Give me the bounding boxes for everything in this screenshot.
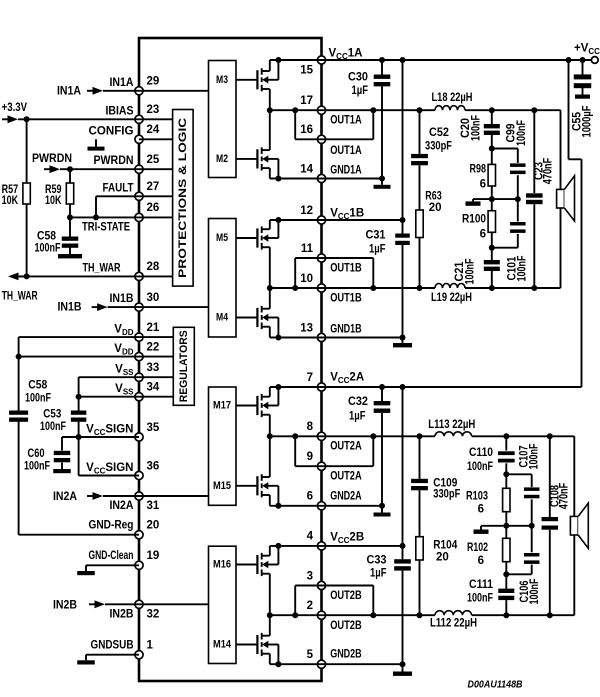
svg-text:PROTECTIONS & LOGIC: PROTECTIONS & LOGIC — [177, 118, 189, 278]
pin label GND2B — [330, 648, 362, 660]
svg-text:OUT2A: OUT2A — [330, 441, 362, 453]
svg-text:IN2B: IN2B — [53, 600, 77, 612]
wire pin 23 to PROTECTIONS block — [139, 118, 173, 120]
resistor R104 20 — [416, 537, 458, 616]
resistor R98 6 — [470, 149, 496, 200]
pin label OUT1B (10) — [330, 292, 362, 304]
svg-text:GND2A: GND2A — [330, 490, 362, 502]
capacitor C60 100nF — [24, 437, 70, 473]
capacitor C106 100nF — [506, 526, 541, 605]
transistor M15-LS — [236, 436, 281, 509]
wire pin 26 to PROTECTIONS block — [139, 216, 173, 218]
node half-bridge output junction (M3) — [267, 107, 273, 113]
svg-text:M4: M4 — [216, 312, 229, 324]
wire OUT pin line (M5 bridge) — [270, 287, 322, 289]
pin 29 IN1A — [110, 76, 160, 95]
wire pin 22 to REGULATORS block — [139, 356, 173, 358]
wire C58 to GND-Reg pin 20 — [19, 421, 139, 535]
ground (C58) — [58, 254, 82, 258]
pin 7 — [307, 372, 326, 391]
svg-text:6: 6 — [478, 555, 484, 567]
pin 2 — [307, 600, 326, 619]
svg-text:100nF: 100nF — [516, 120, 528, 146]
label D00AU1148B — [468, 679, 523, 691]
pin label VCCSIGN (35) — [86, 424, 133, 437]
pin 27 FAULT — [103, 181, 160, 200]
svg-text:330pF: 330pF — [425, 141, 452, 153]
wire VDD rail (pins 21/22) to C58 column — [16, 337, 139, 410]
wire pin 21 to REGULATORS block — [139, 336, 173, 338]
svg-text:100nF: 100nF — [40, 421, 66, 433]
wire +3.3V to pin 23 IBIAS — [18, 116, 139, 122]
wire VCCSIGN net (pins 35/36) — [62, 434, 139, 476]
transistor M3-HS — [236, 57, 281, 110]
svg-text:PWRDN: PWRDN — [32, 153, 72, 165]
pin 9 — [307, 451, 326, 470]
pin 12 — [300, 205, 325, 224]
svg-text:IN2B: IN2B — [110, 609, 134, 621]
wire pin 25 to PROTECTIONS block — [139, 168, 173, 170]
node PWRDN input — [32, 153, 72, 173]
svg-text:470nF: 470nF — [543, 158, 555, 185]
wire TH_WAR output line — [2, 273, 139, 303]
svg-text:L18 22µH: L18 22µH — [432, 92, 473, 104]
driver block M3/M2 — [209, 61, 237, 178]
wire OUT pin line (M3 bridge) — [270, 109, 322, 111]
svg-text:L19 22µH: L19 22µH — [431, 292, 472, 304]
svg-text:27: 27 — [147, 181, 160, 193]
pin 31 IN2A — [110, 492, 160, 512]
svg-text:10: 10 — [300, 273, 313, 285]
pin label VCC1A — [329, 48, 363, 61]
svg-text:GND-Clean: GND-Clean — [89, 550, 134, 562]
wire GND2B to ground — [322, 661, 406, 671]
pin label OUT2A (9) — [330, 471, 362, 483]
pin label OUT1B (11) — [330, 262, 362, 274]
pin 22 — [135, 341, 159, 360]
svg-text:13: 13 — [300, 322, 313, 334]
svg-text:100nF: 100nF — [25, 393, 51, 405]
inductor L112 22µH — [430, 611, 477, 630]
wire external bracket pin 11 — [322, 258, 374, 288]
inductor L18 22µH — [432, 92, 473, 110]
wire VSS bracket (pins 33/34) — [76, 377, 139, 400]
capacitor C108 470nF — [542, 436, 571, 615]
svg-text:20: 20 — [147, 520, 160, 532]
wire internal bracket to pin 16 — [292, 107, 321, 139]
svg-text:10K: 10K — [2, 195, 19, 207]
pin label GND1A — [330, 164, 362, 176]
wire +VCC bus to VCC2A rail — [322, 60, 582, 390]
pin 10 — [300, 273, 325, 292]
transistor M2-LS — [236, 110, 281, 181]
capacitor C21 100nF — [454, 248, 500, 288]
svg-text:OUT2B: OUT2B — [330, 620, 362, 632]
pin label VDD (22) — [114, 343, 133, 356]
svg-text:36: 36 — [147, 460, 160, 472]
svg-text:TRI-STATE: TRI-STATE — [82, 221, 130, 233]
svg-text:IN2A: IN2A — [53, 491, 77, 503]
wire IN2A pin31 to M17/M15 — [139, 495, 209, 497]
svg-text:28: 28 — [147, 261, 160, 273]
svg-text:330pF: 330pF — [433, 488, 460, 500]
pin label OUT1A (16) — [330, 145, 362, 157]
wire GND1B to ground — [322, 335, 406, 344]
svg-text:15: 15 — [300, 64, 313, 76]
pin 20 GND-Reg — [89, 519, 160, 538]
capacitor C111 100nF — [467, 574, 514, 615]
capacitor C52 330pF — [411, 110, 452, 210]
wire external bracket pin 16 — [322, 110, 374, 139]
ground (GND2B) — [393, 672, 412, 676]
svg-text:33: 33 — [147, 362, 160, 374]
svg-text:GND2B: GND2B — [330, 648, 362, 660]
pin 17 — [300, 95, 325, 114]
wire mid node (zobel ch2) — [481, 523, 535, 529]
wire TRI-STATE net (pin 26) — [67, 214, 139, 220]
svg-text:470nF: 470nF — [559, 483, 571, 510]
svg-text:20: 20 — [436, 551, 449, 563]
svg-text:32: 32 — [147, 609, 160, 621]
svg-text:R63: R63 — [425, 191, 442, 203]
svg-text:21: 21 — [147, 322, 160, 334]
wire speaker 2 bottom lead — [550, 535, 575, 615]
svg-text:R104: R104 — [433, 539, 458, 551]
ground (zobel mid ch2) — [474, 526, 489, 534]
resistor R102 6 — [467, 526, 510, 575]
svg-text:7: 7 — [307, 372, 313, 384]
svg-text:C32: C32 — [348, 396, 368, 408]
svg-text:C111: C111 — [469, 579, 494, 591]
pin label VCC2A — [330, 372, 364, 385]
wire VCC1B feed (pin 12) — [322, 60, 406, 223]
pin 8 — [307, 421, 326, 440]
wire OUT pin line (M17 bridge) — [270, 435, 322, 437]
svg-text:C58: C58 — [28, 380, 48, 392]
wire OUT1B line (pin 10) — [322, 285, 538, 291]
svg-text:19: 19 — [147, 550, 160, 562]
svg-text:M2: M2 — [216, 153, 228, 165]
node IN2A input — [53, 491, 139, 503]
pin label VCC1B — [330, 208, 364, 221]
svg-text:M16: M16 — [213, 559, 231, 571]
svg-text:REGULATORS: REGULATORS — [178, 330, 190, 402]
svg-text:11: 11 — [301, 243, 314, 255]
pin 13 — [300, 322, 325, 341]
capacitor C33 1µF — [367, 546, 411, 664]
svg-text:TH_WAR: TH_WAR — [83, 262, 122, 274]
block REGULATORS — [173, 327, 194, 405]
svg-text:+3.3V: +3.3V — [2, 102, 28, 114]
pin 1 GNDSUB — [91, 639, 154, 658]
svg-text:GND-Reg: GND-Reg — [89, 519, 134, 531]
pin 25 PWRDN — [94, 154, 160, 173]
svg-text:34: 34 — [147, 382, 160, 394]
svg-text:M15: M15 — [213, 480, 231, 492]
svg-text:29: 29 — [147, 76, 160, 88]
svg-text:OUT1B: OUT1B — [330, 292, 362, 304]
node IN2B input — [53, 600, 139, 612]
svg-text:31: 31 — [147, 500, 160, 512]
wire pin 34 to REGULATORS block — [139, 396, 173, 398]
wire VCC pin line (M3 bridge) — [270, 59, 322, 61]
ground (CONFIG pin 24) — [88, 139, 105, 150]
svg-text:IBIAS: IBIAS — [106, 105, 134, 117]
speaker (channel 1) — [557, 176, 575, 221]
svg-text:17: 17 — [300, 95, 313, 107]
svg-text:GNDSUB: GNDSUB — [91, 639, 134, 651]
svg-text:PWRDN: PWRDN — [94, 155, 134, 167]
svg-text:OUT2B: OUT2B — [330, 590, 362, 602]
ground (GND2A) — [374, 513, 391, 517]
svg-text:2: 2 — [307, 600, 313, 612]
wire GND pin line (M17 bridge) — [270, 505, 322, 507]
svg-text:25: 25 — [147, 154, 160, 166]
svg-text:OUT1B: OUT1B — [330, 262, 362, 274]
resistor R103 6 — [466, 474, 510, 526]
svg-text:1µF: 1µF — [352, 85, 369, 97]
ground (GND1B) — [393, 343, 412, 347]
svg-text:OUT2A: OUT2A — [330, 471, 362, 483]
pin 4 — [307, 531, 326, 550]
svg-text:L113 22µH: L113 22µH — [428, 419, 475, 431]
wire OUT2A line (pin 8) — [322, 433, 553, 439]
wire GND pin line (M16 bridge) — [270, 663, 322, 665]
speaker (channel 2) — [570, 503, 588, 548]
pin 11 — [301, 243, 326, 262]
svg-text:IN1B: IN1B — [58, 302, 82, 314]
node R102/C111/C106 junction — [503, 571, 509, 577]
wire IN1B pin30 to M5/M4 — [139, 306, 209, 308]
capacitor C20 100nF — [460, 110, 500, 148]
svg-text:TH_WAR: TH_WAR — [2, 291, 39, 303]
svg-text:C31: C31 — [366, 230, 387, 242]
pin 36 — [135, 460, 159, 479]
svg-text:9: 9 — [307, 451, 313, 463]
pin 21 — [135, 322, 160, 341]
pin 14 — [300, 163, 325, 182]
pin label GND1B — [330, 323, 362, 335]
pin label OUT2B (2) — [330, 620, 362, 632]
svg-text:30: 30 — [147, 292, 160, 304]
pin label OUT2A (8) — [330, 441, 362, 453]
svg-text:R100: R100 — [462, 214, 486, 226]
wire VCC pin line (M5 bridge) — [270, 219, 322, 221]
svg-text:100nF: 100nF — [529, 579, 541, 605]
svg-text:6: 6 — [478, 504, 484, 516]
node +VCC supply rail — [322, 43, 600, 64]
wire IN2B pin32 to M16/M14 — [139, 603, 209, 605]
capacitor C32 1µF — [348, 387, 390, 506]
svg-text:IN1A: IN1A — [57, 86, 81, 98]
svg-text:22: 22 — [147, 341, 160, 353]
svg-text:FAULT: FAULT — [103, 182, 134, 194]
IC U1 body outline — [139, 38, 322, 681]
capacitor C109 330pF — [411, 436, 460, 536]
pin 32 IN2B — [110, 600, 160, 620]
pin label VSS (33) — [115, 364, 134, 377]
svg-text:1000µF: 1000µF — [582, 106, 594, 138]
node half-bridge output junction (M5) — [267, 285, 273, 291]
node IN1B input — [58, 302, 140, 314]
svg-text:26: 26 — [147, 202, 160, 214]
svg-text:GND1A: GND1A — [330, 164, 362, 176]
svg-text:20: 20 — [429, 202, 442, 214]
capacitor C58 100nF (VDD) — [9, 380, 51, 422]
svg-text:M17: M17 — [213, 400, 231, 412]
block PROTECTIONS & LOGIC — [173, 110, 194, 287]
capacitor C107 100nF — [506, 444, 540, 526]
capacitor C23 470nF — [526, 110, 554, 288]
pin 35 — [135, 422, 160, 441]
wire speaker 1 bottom lead — [534, 208, 560, 288]
ground (C60) — [53, 469, 71, 473]
svg-text:IN2A: IN2A — [110, 500, 134, 512]
transistor M16-HS — [236, 543, 281, 615]
svg-text:C53: C53 — [43, 409, 61, 421]
wire VCC pin line (M16 bridge) — [270, 545, 322, 547]
pin 28 TH_WAR — [83, 261, 160, 280]
pin label OUT2B (3) — [330, 590, 362, 602]
capacitor C53 100nF — [40, 397, 86, 437]
svg-text:M5: M5 — [216, 232, 228, 244]
node half-bridge output junction (M16) — [267, 612, 273, 618]
svg-text:100nF: 100nF — [471, 115, 483, 141]
wire GND pin line (M3 bridge) — [270, 178, 322, 180]
wire OUT pin line (M16 bridge) — [270, 614, 322, 616]
inductor L113 22µH — [428, 419, 475, 436]
resistor R63 20 — [416, 191, 442, 289]
pin 33 — [135, 362, 159, 381]
svg-text:23: 23 — [147, 104, 160, 116]
svg-text:C52: C52 — [429, 127, 449, 139]
capacitor C55 1000µF — [572, 60, 594, 138]
svg-text:M3: M3 — [216, 74, 228, 86]
svg-text:14: 14 — [300, 163, 313, 175]
svg-text:5: 5 — [307, 649, 314, 661]
svg-text:100nF: 100nF — [517, 256, 529, 282]
wire pin 33 to REGULATORS block — [139, 376, 173, 378]
svg-text:OUT1A: OUT1A — [330, 115, 362, 127]
pin 6 — [307, 491, 326, 510]
svg-text:100nF: 100nF — [24, 461, 50, 473]
wire external bracket pin 9 — [322, 436, 374, 466]
inductor L19 22µH — [431, 284, 472, 304]
wire pin 24 to PROTECTIONS block — [139, 138, 173, 140]
svg-text:L112 22µH: L112 22µH — [430, 617, 477, 629]
svg-text:C58: C58 — [37, 231, 57, 243]
wire speaker 1 top lead — [534, 110, 560, 189]
svg-text:OUT1A: OUT1A — [330, 145, 362, 157]
wire pin 27 to PROTECTIONS block — [139, 195, 173, 197]
svg-text:R102: R102 — [467, 542, 488, 554]
wire FAULT pin 27 jog — [96, 196, 139, 217]
capacitor C101 100nF — [492, 199, 529, 281]
pin 16 — [300, 124, 325, 143]
svg-text:C30: C30 — [348, 71, 368, 83]
svg-text:100nF: 100nF — [35, 243, 61, 255]
svg-text:1µF: 1µF — [369, 244, 386, 256]
node C20/R98/C99 junction — [489, 146, 495, 152]
svg-text:4: 4 — [307, 531, 314, 543]
pin 34 — [135, 382, 160, 401]
svg-text:35: 35 — [147, 422, 160, 434]
svg-text:R98: R98 — [470, 163, 487, 175]
wire VCC2B feed (pin 4) — [322, 387, 406, 549]
svg-text:IN1A: IN1A — [110, 77, 134, 89]
ground (GND1A) — [374, 185, 391, 189]
driver block M5/M4 — [209, 219, 237, 338]
svg-text:6: 6 — [480, 229, 486, 241]
wire internal bracket to pin 3 — [292, 586, 321, 619]
svg-text:M14: M14 — [213, 639, 232, 651]
svg-text:D00AU1148B: D00AU1148B — [468, 679, 523, 691]
svg-text:VCCSIGN: VCCSIGN — [86, 462, 133, 475]
pin 15 — [300, 56, 325, 77]
wire PWRDN to pin 25 — [60, 166, 139, 172]
node +3.3V supply input — [2, 102, 28, 123]
svg-text:1µF: 1µF — [370, 568, 387, 580]
svg-text:C33: C33 — [367, 555, 387, 567]
pin label GND2A — [330, 490, 362, 502]
svg-text:100nF: 100nF — [465, 259, 477, 285]
ground (C55) — [575, 95, 590, 99]
svg-text:12: 12 — [300, 205, 313, 217]
wire GND1A to ground — [322, 176, 386, 185]
wire VCC pin line (M17 bridge) — [270, 386, 322, 388]
capacitor C110 100nF — [467, 436, 515, 474]
wire speaker 2 top lead — [550, 436, 575, 516]
ground (zobel mid ch1) — [466, 199, 481, 206]
svg-text:3: 3 — [307, 570, 313, 582]
svg-text:16: 16 — [300, 124, 313, 136]
resistor R100 6 — [462, 199, 496, 248]
svg-text:24: 24 — [147, 124, 160, 136]
wire GND pin line (M5 bridge) — [270, 337, 322, 339]
pin label VDD (21) — [114, 324, 133, 337]
svg-text:6: 6 — [480, 178, 486, 190]
pin 19 GND-Clean — [89, 550, 160, 569]
resistor R57 10K — [2, 119, 31, 276]
pin 5 — [307, 649, 326, 668]
svg-text:IN1B: IN1B — [110, 293, 134, 305]
wire mid node (zobel ch1) — [473, 196, 521, 202]
svg-text:100nF: 100nF — [529, 444, 541, 470]
capacitor C58 100nF (TRI-STATE) — [35, 217, 79, 254]
pin 3 — [307, 570, 326, 589]
svg-text:1µF: 1µF — [349, 410, 366, 422]
svg-text:8: 8 — [307, 421, 314, 433]
driver block M16/M14 — [209, 546, 237, 663]
transistor M17-HS — [236, 384, 281, 436]
node IN1A input — [57, 86, 139, 98]
svg-text:100nF: 100nF — [467, 592, 493, 604]
wire IN1A pin29 to M3/M2 — [139, 90, 209, 92]
capacitor C31 1µF — [366, 220, 410, 338]
transistor M14-LS — [236, 615, 281, 667]
svg-text:CONFIG: CONFIG — [89, 125, 134, 137]
svg-text:R103: R103 — [466, 491, 488, 503]
capacitor C99 100nF — [492, 120, 528, 199]
node R100/C21/C101 junction — [489, 245, 495, 251]
node C110/R103/C107 junction — [503, 471, 509, 477]
wire internal bracket to pin 9 — [292, 433, 321, 466]
pin label VSS (34) — [115, 383, 134, 396]
ground (GND-Clean pin 19) — [77, 565, 139, 575]
pin label OUT1A (17) — [330, 115, 362, 127]
resistor R59 10K — [45, 169, 74, 217]
svg-text:C60: C60 — [28, 448, 45, 460]
